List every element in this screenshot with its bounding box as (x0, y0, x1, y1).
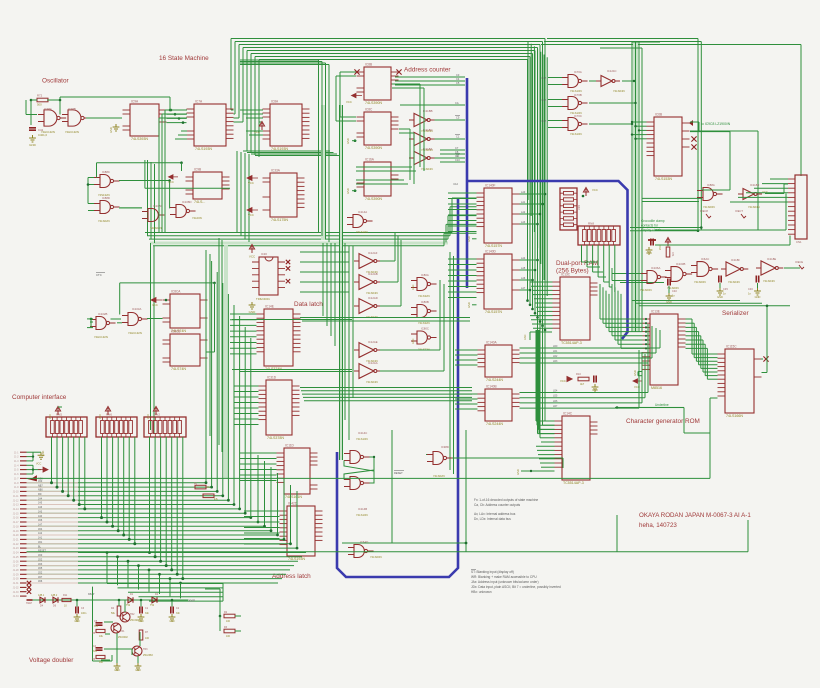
ic IC14C dual port RAM 2 (562, 416, 590, 480)
svg-text:LD0: LD0 (553, 345, 558, 348)
svg-text:IC140D: IC140D (485, 250, 497, 254)
wire state machine interconnects (165, 109, 187, 111)
wire 244 inputs (455, 349, 478, 351)
svg-text:IC80B: IC80B (421, 300, 429, 304)
svg-text:LA5: LA5 (521, 267, 526, 270)
svg-text:JA2: JA2 (38, 532, 43, 535)
resistor network RN6 (96, 417, 137, 437)
svg-text:T52: T52 (150, 604, 155, 607)
svg-text:C40: C40 (672, 289, 677, 293)
svg-text:IC98D: IC98D (441, 445, 449, 449)
vcc IC33A (247, 176, 258, 181)
resistor R6 (96, 655, 105, 658)
vcc RN5 (55, 407, 60, 416)
svg-text:C12: C12 (453, 182, 458, 186)
svg-text:74LS04N: 74LS04N (748, 205, 760, 209)
svg-text:IC8B: IC8B (365, 63, 372, 67)
svg-text:JD0: JD0 (38, 554, 43, 557)
wire CN1 bottom exit (789, 236, 791, 246)
svg-text:IC12AA: IC12AA (368, 361, 378, 365)
svg-text:LD5: LD5 (553, 395, 558, 398)
svg-text:TR2: TR2 (130, 613, 135, 616)
svg-text:74LS00N: 74LS00N (703, 205, 715, 209)
svg-text:J1-12: J1-12 (13, 500, 19, 502)
ground TR3 (137, 656, 139, 663)
svg-text:IOEC8: IOEC8 (700, 209, 708, 213)
svg-text:C401,0: C401,0 (38, 133, 47, 137)
wire verticals beside blue V2 (449, 252, 451, 470)
wire IC70B out (589, 102, 636, 104)
svg-text:74LS10N: 74LS10N (356, 230, 368, 234)
wire pale vertical x341 (340, 105, 343, 460)
svg-text:IC16A: IC16A (365, 158, 375, 162)
svg-text:LD2: LD2 (553, 355, 558, 358)
ic IC8CA 74LS74N (170, 294, 200, 328)
vcc RN6 (105, 407, 110, 416)
svg-text:Computer interface: Computer interface (12, 394, 67, 401)
wire top bundle left corner verticals (230, 39, 232, 111)
svg-text:J1-25: J1-25 (13, 557, 19, 559)
svg-text:300P: 300P (188, 599, 195, 603)
cap C40 serializer (719, 276, 721, 283)
svg-text:T52: T52 (126, 604, 131, 607)
svg-text:OKAYA RODAN JAPAN M-0067-3 AI: OKAYA RODAN JAPAN M-0067-3 AI A-1 (639, 512, 751, 519)
svg-text:NB7: NB7 (38, 484, 43, 487)
wire D0-D3 bundle right (300, 317, 470, 319)
svg-text:IC6AC: IC6AC (701, 257, 709, 261)
svg-text:GND: GND (646, 251, 652, 255)
svg-text:LD4: LD4 (553, 390, 558, 393)
ic IC11D 74LS161N (284, 448, 310, 494)
vcc J1-4 (27, 464, 34, 466)
svg-text:HBx: unknown: HBx: unknown (471, 590, 492, 594)
svg-text:JDx: Data input, plain ASCII,: JDx: Data input, plain ASCII, Bit 7 = un… (471, 585, 561, 589)
bottom bundle horizontals (107, 583, 223, 585)
nand IC70B 74LS10N (568, 97, 578, 110)
svg-text:IC118F: IC118F (731, 258, 740, 262)
svg-text:74LS193N: 74LS193N (288, 557, 305, 561)
svg-text:LA4: LA4 (521, 257, 526, 260)
svg-text:J1-7: J1-7 (14, 479, 19, 481)
svg-text:J1-6: J1-6 (14, 474, 19, 476)
svg-text:IC70A: IC70A (574, 70, 582, 74)
ic IC9B 74LS393N top right partial (193, 172, 222, 199)
svg-text:JA4: JA4 (38, 497, 43, 500)
staircase risers up group1 (205, 250, 207, 483)
svg-text:LD6: LD6 (553, 400, 558, 403)
xmarks IC6B outputs (691, 136, 696, 141)
svg-text:JD1: JD1 (38, 541, 43, 544)
svg-text:J1-28: J1-28 (13, 570, 19, 572)
capacitor C5 (96, 623, 103, 625)
svg-text:74LS175N: 74LS175N (271, 218, 288, 222)
svg-text:GND: GND (135, 669, 141, 672)
svg-text:74LS193N: 74LS193N (271, 147, 288, 151)
wire left vertical bundle B pale (224, 245, 228, 478)
svg-text:LD7: LD7 (553, 405, 558, 408)
ground below C42 (29, 135, 36, 142)
bus blue vertical V2 with bottom jog (337, 198, 458, 577)
svg-text:Data latch: Data latch (294, 301, 323, 308)
wire CA label (400, 104, 465, 106)
svg-text:74LS32N: 74LS32N (418, 321, 430, 325)
svg-text:IC33A: IC33A (271, 169, 281, 173)
svg-text:LA7: LA7 (521, 287, 526, 290)
svg-text:C42: C42 (38, 128, 44, 132)
wires into IC70 gates (548, 77, 562, 79)
svg-text:100n: 100n (81, 612, 87, 615)
nand IC103A2 (128, 313, 138, 326)
svg-text:C45: C45 (723, 287, 728, 291)
svg-text:74LS244N: 74LS244N (486, 422, 503, 426)
capacitor C4 (96, 648, 103, 650)
wire state machine bundle x318 pale (321, 105, 325, 240)
svg-text:IC106A: IC106A (651, 266, 660, 270)
svg-text:M8516: M8516 (651, 386, 662, 390)
wire top bundle far right extensions (547, 38, 698, 40)
resistor R7 (139, 630, 143, 640)
svg-text:RN6: RN6 (106, 413, 112, 417)
svg-text:IOECE: IOECE (795, 260, 803, 264)
svg-text:74LS390N: 74LS390N (365, 197, 382, 201)
resistor network RN8 (578, 226, 620, 245)
svg-text:GND: GND (29, 143, 37, 147)
wire state machine bundle x237 (236, 151, 238, 233)
svg-text:heha, 140723: heha, 140723 (639, 522, 677, 529)
svg-text:C12: C12 (542, 120, 547, 123)
svg-text:TC5514AP-3: TC5514AP-3 (563, 481, 584, 485)
svg-text:Ca, Cb: Address counter output: Ca, Cb: Address counter outputs (474, 503, 520, 507)
xmark IC115C out (763, 356, 768, 361)
svg-text:500: 500 (37, 103, 42, 107)
inverter IC12AF (359, 254, 374, 269)
wire mux outputs to RAM (520, 193, 546, 195)
svg-text:IC12AB: IC12AB (368, 272, 378, 276)
svg-text:IC98A: IC98A (44, 107, 52, 111)
svg-text:74LS161N: 74LS161N (285, 495, 302, 499)
buffer IC118F (726, 262, 740, 276)
resistor R4 (117, 606, 121, 616)
svg-text:100: 100 (145, 637, 150, 640)
svg-text:GND: GND (169, 620, 175, 623)
svg-text:74LS02N: 74LS02N (433, 474, 445, 478)
svg-text:J1-32: J1-32 (13, 588, 19, 590)
wire 244 outputs (520, 347, 661, 349)
svg-text:Av, LAx: Internal address bus: Av, LAx: Internal address bus (474, 512, 516, 516)
svg-text:GND: GND (138, 620, 144, 623)
svg-text:Address counter: Address counter (404, 67, 451, 74)
resistor R5 (96, 629, 105, 632)
wire center vertical bundle (527, 41, 529, 200)
svg-text:LA6: LA6 (521, 277, 526, 280)
wire IC6B output down to serializer (690, 131, 730, 133)
svg-text:VCC: VCC (49, 414, 52, 419)
svg-text:J1-33: J1-33 (13, 592, 19, 594)
svg-text:74L00N: 74L00N (192, 216, 202, 220)
wire ROM outputs to 151 (686, 318, 693, 320)
ic IC6B 74LS153N (654, 117, 682, 176)
ic IC140D 74LS157N (484, 254, 512, 309)
and IC108C (148, 209, 158, 222)
svg-text:74LS04N: 74LS04N (366, 380, 378, 384)
svg-text:IC114A: IC114A (358, 210, 367, 214)
svg-text:H11P: H11P (26, 602, 32, 605)
svg-text:IC140B: IC140B (486, 385, 497, 389)
svg-text:33n: 33n (176, 612, 181, 615)
ic IC8C 74LS390N (364, 112, 391, 145)
inverter IC12AA (359, 364, 374, 379)
svg-text:NB0: NB0 (38, 489, 43, 492)
wires row2 gates (88, 177, 94, 179)
svg-text:RD: RD (38, 493, 42, 496)
wire serializer bottom returns (632, 295, 740, 301)
ground IC30 (249, 302, 256, 309)
resistors P6 on rows (195, 485, 206, 489)
wire serializer feeds (612, 273, 641, 275)
green label to IC9C8 (689, 120, 693, 126)
wire data latch to inverter column (300, 251, 349, 253)
connector CN1 (795, 175, 807, 239)
diode D6 (53, 597, 58, 603)
svg-text:GND: GND (755, 295, 761, 299)
svg-text:IC70B: IC70B (574, 93, 582, 97)
buffer IC124C (601, 76, 612, 87)
wire IC118D output to CN1 (765, 193, 784, 195)
svg-text:IC12AD: IC12AD (368, 296, 378, 300)
svg-text:IC140A: IC140A (486, 341, 498, 345)
svg-text:JD6: JD6 (38, 580, 43, 583)
wire mid bundle fan to mux (451, 198, 453, 233)
svg-text:74LS04N: 74LS04N (728, 280, 740, 284)
diode D4 (40, 597, 45, 603)
svg-text:74LS04N: 74LS04N (613, 89, 625, 93)
svg-text:74LS10N: 74LS10N (356, 513, 368, 517)
svg-text:IC9B: IC9B (194, 168, 201, 172)
svg-text:GND: GND (114, 669, 120, 672)
svg-text:74HC132N: 74HC132N (128, 331, 142, 335)
wires J1 rows long (27, 482, 207, 484)
svg-text:J1-26: J1-26 (13, 561, 19, 563)
svg-text:RN2: RN2 (154, 413, 160, 417)
buffer IC118D (743, 189, 754, 200)
capacitor C2 (171, 607, 173, 614)
svg-text:GND: GND (412, 338, 415, 344)
ic IC9A 74LS393N (130, 104, 159, 136)
svg-text:GND: GND (633, 370, 637, 376)
ic IC30 TD62 dip (259, 257, 278, 295)
svg-text:3n3: 3n3 (94, 625, 99, 628)
ic IC33A 74LS175N (270, 173, 297, 217)
svg-text:VCC: VCC (560, 379, 566, 383)
svg-text:C4: C4 (456, 77, 460, 81)
svg-text:74LS00N: 74LS00N (694, 280, 706, 284)
svg-text:IC108D: IC108D (182, 200, 191, 204)
svg-text:JA1: JA1 (38, 537, 43, 540)
wire IC70C out (589, 123, 632, 125)
vcc IC30 (249, 245, 254, 254)
resistor R72 (37, 98, 48, 102)
svg-text:74LS390N: 74LS390N (365, 146, 382, 150)
svg-text:JA7: JA7 (38, 524, 43, 527)
svg-text:IC124C: IC124C (607, 69, 616, 73)
svg-text:74LS393N: 74LS393N (131, 137, 148, 141)
svg-text:LD1: LD1 (553, 350, 558, 353)
svg-text:IC8A: IC8A (271, 100, 279, 104)
wire serializer out (762, 372, 768, 374)
rn6 pin drops to rows (101, 437, 103, 518)
svg-text:J1-29: J1-29 (13, 574, 19, 576)
svg-text:IC6B: IC6B (655, 113, 662, 117)
wire serializer chain out (784, 267, 800, 269)
svg-text:JAx: Address input (unknown bi: JAx: Address input (unknown bits/column … (471, 580, 539, 584)
svg-text:74LS32N: 74LS32N (418, 294, 430, 298)
svg-text:LD3: LD3 (553, 360, 558, 363)
svg-text:VCC: VCC (36, 462, 41, 465)
svg-text:VCC: VCC (99, 414, 102, 419)
svg-text:J1-16: J1-16 (13, 518, 19, 520)
resistor R2 (205, 588, 220, 590)
cap C40 first (668, 279, 670, 286)
wire vd main rail (27, 599, 189, 601)
ic IC140F 74LS157N (484, 188, 512, 243)
svg-text:LA1: LA1 (521, 201, 526, 204)
svg-text:IC88C: IC88C (102, 170, 110, 174)
svg-text:Underline: Underline (655, 403, 669, 407)
wire 161 inputs (240, 452, 277, 454)
svg-text:74LS193N: 74LS193N (195, 147, 212, 151)
svg-text:VCC: VCC (248, 181, 254, 185)
svg-text:74LS00N: 74LS00N (640, 288, 652, 292)
rn2 pin drops to rows (149, 437, 151, 553)
ic IC16A 74LS390N (364, 162, 391, 196)
svg-text:IC8CB: IC8CB (171, 330, 180, 334)
svg-text:RN5: RN5 (56, 413, 62, 417)
svg-text:IC7A: IC7A (195, 100, 203, 104)
svg-text:JD2: JD2 (38, 558, 43, 561)
svg-text:VCC: VCC (248, 213, 254, 217)
svg-text:100: 100 (226, 620, 231, 623)
svg-text:J1-27: J1-27 (13, 566, 19, 568)
svg-text:IC8CA: IC8CA (171, 290, 181, 294)
wire top bus bundle horizontals (231, 38, 545, 40)
svg-text:JD5: JD5 (38, 567, 43, 570)
svg-text:R71: R71 (671, 252, 674, 257)
wire IC9A to IC7A (167, 109, 187, 111)
svg-text:74LS157N: 74LS157N (485, 244, 502, 248)
transistor TR3 (132, 646, 142, 656)
svg-text:IOECT: IOECT (735, 209, 743, 213)
svg-text:JD7: JD7 (38, 576, 43, 579)
wire gnd rail ram (530, 331, 552, 333)
nand gate IC98B 74HC132N (68, 110, 81, 126)
svg-text:J1-5: J1-5 (14, 470, 19, 472)
vcc IC8CA (151, 298, 162, 303)
inverter IC11BA (414, 151, 427, 164)
ic IC8B 74LS390N (364, 67, 391, 100)
wire comb extensions to IC14C (544, 330, 546, 421)
svg-text:Serializer: Serializer (722, 310, 750, 317)
svg-text:contacts for: contacts for (641, 224, 659, 228)
svg-text:GND: GND (717, 295, 723, 299)
capacitor C3 (76, 607, 78, 614)
svg-text:CN1: CN1 (796, 240, 802, 244)
ic IC31D 74LS378N (266, 380, 292, 435)
svg-text:CA: CA (455, 101, 459, 105)
no connect J1-31 32 33 (27, 581, 31, 585)
wires C7-C10 labels near blue (440, 149, 465, 151)
transistor TR2 (120, 612, 130, 622)
svg-text:C10: C10 (455, 158, 460, 162)
wire left vertical bundle A (147, 160, 149, 236)
vcc IC8A (259, 122, 264, 131)
svg-text:GND: GND (249, 310, 257, 314)
svg-text:IC115C: IC115C (726, 345, 737, 349)
svg-text:12B.1: 12B.1 (38, 594, 45, 597)
svg-text:IC12AF: IC12AF (368, 251, 378, 255)
svg-text:J1-13: J1-13 (13, 505, 19, 507)
svg-text:CTC: CTC (96, 273, 102, 277)
svg-text:25C2383: 25C2383 (143, 654, 153, 657)
svg-text:J1-24: J1-24 (13, 553, 19, 555)
transistor TR1 (111, 623, 121, 633)
ic IC42D 74LS193N address latch (287, 506, 315, 556)
wire 42D inputs (244, 510, 280, 512)
svg-text:LA2: LA2 (521, 211, 526, 214)
svg-text:IC102B: IC102B (98, 312, 107, 316)
nand IC88C 74HC132N (100, 175, 110, 188)
svg-text:74LS157N: 74LS157N (485, 310, 502, 314)
svg-text:J1-11: J1-11 (13, 496, 19, 498)
inverter IC12AE (359, 343, 374, 358)
wire RAM to ROM (600, 318, 643, 320)
svg-text:J1-34: J1-34 (13, 596, 19, 598)
svg-text:VCC: VCC (346, 100, 352, 104)
svg-text:3n3: 3n3 (93, 650, 98, 653)
svg-text:Oscillator: Oscillator (42, 78, 70, 85)
svg-text:R40: R40 (577, 205, 581, 210)
svg-text:JD0: JD0 (38, 480, 43, 483)
svg-text:LA3: LA3 (521, 221, 526, 224)
diode D1 (128, 597, 133, 603)
svg-text:74LS08N: 74LS08N (150, 226, 162, 230)
svg-text:IC140F: IC140F (485, 184, 496, 188)
svg-text:GND: GND (346, 138, 350, 144)
svg-text:IC70C: IC70C (574, 114, 582, 118)
svg-text:VCC: VCC (147, 414, 150, 419)
wire mid-left risers (205, 250, 207, 430)
vcc RN2 (153, 407, 158, 416)
svg-text:KBAP: KBAP (88, 593, 95, 596)
svg-text:IC42D: IC42D (288, 502, 298, 506)
svg-text:IC11D: IC11D (285, 444, 294, 448)
inverter IC12AD (359, 299, 374, 314)
svg-text:4k7: 4k7 (580, 382, 585, 386)
svg-text:74LS378N: 74LS378N (267, 436, 284, 440)
svg-text:74HC132N: 74HC132N (65, 130, 79, 134)
resistor network RN2 (144, 417, 186, 437)
svg-text:JD6: JD6 (38, 519, 43, 522)
svg-text:JD3: JD3 (38, 563, 43, 566)
cap C45 serializer (756, 276, 758, 283)
svg-text:74LS04N: 74LS04N (421, 167, 433, 171)
svg-text:GND: GND (346, 188, 350, 194)
ic IC8CB 74LS74N (170, 334, 200, 366)
inverter IC12AB (359, 275, 374, 290)
ic IC140A 74LS244N (485, 345, 512, 377)
svg-text:VCC: VCC (592, 188, 598, 192)
svg-text:C9: C9 (455, 154, 459, 158)
resistor R11 (62, 598, 71, 601)
